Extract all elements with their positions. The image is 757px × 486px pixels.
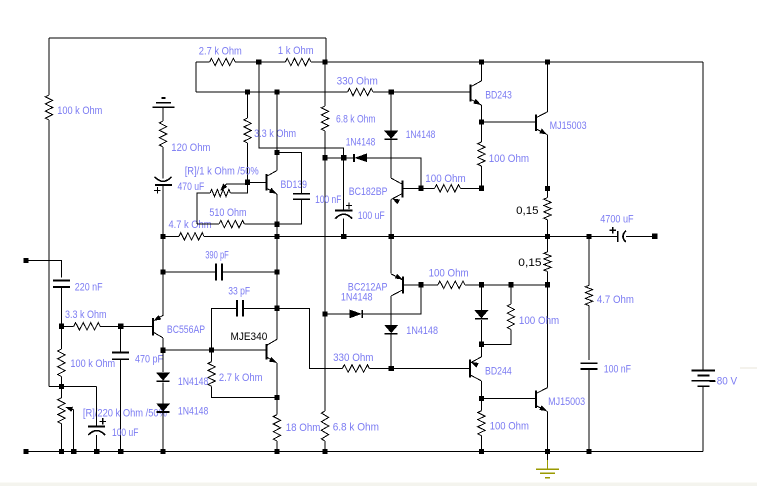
- label 100 k Ohm: [57, 105, 102, 117]
- resistor 100 Ohm (BD244 collector): [478, 411, 485, 436]
- junction: [479, 342, 484, 347]
- wire: [324, 441, 326, 452]
- wire: [196, 61, 210, 63]
- resistor 100 k Ohm (input lower): [58, 349, 65, 377]
- transistor BC556AP collector: [153, 332, 163, 338]
- junction: [545, 59, 550, 64]
- wire: [481, 398, 536, 400]
- capacitor 4700 uF plus: [610, 227, 616, 233]
- wire: [481, 329, 511, 344]
- wire: [276, 398, 278, 415]
- label 100 Ohm: [429, 268, 469, 280]
- transistor MJE340 emitter: [267, 357, 277, 363]
- wire: [163, 235, 179, 237]
- junction: [545, 234, 550, 239]
- junction: [161, 449, 166, 454]
- junction: [274, 270, 279, 275]
- transistor BD244 emitter: [470, 357, 481, 363]
- wire: [60, 424, 62, 452]
- label BC182BP: [349, 186, 388, 198]
- label 1N4148: [406, 129, 436, 141]
- transistor MJ15003 (2) collector: [536, 388, 548, 394]
- svg-text:[R]/1 k Ohm /50%: [R]/1 k Ohm /50%: [185, 166, 260, 178]
- wire: [100, 325, 153, 327]
- junction: [389, 234, 394, 239]
- svg-text:33 pF: 33 pF: [228, 285, 250, 297]
- svg-text:BD244: BD244: [485, 365, 512, 377]
- label BD244: [485, 365, 512, 377]
- svg-text:100 k Ohm: 100 k Ohm: [57, 105, 102, 117]
- label 510 Ohm: [209, 207, 246, 219]
- wire: [60, 386, 62, 397]
- capacitor 470 uF (plate): [155, 184, 172, 186]
- transistor BC212AP emitter arrow: [395, 274, 402, 279]
- ground (output, olive): [536, 460, 559, 478]
- label 100 nF: [315, 194, 342, 206]
- junction: [479, 186, 484, 191]
- wire: [277, 200, 302, 224]
- wire: [390, 334, 392, 368]
- junction: [59, 324, 64, 329]
- wire: [311, 61, 703, 63]
- resistor 330 Ohm (lower): [342, 365, 369, 372]
- svg-text:0,15: 0,15: [516, 205, 538, 217]
- svg-text:1N4148: 1N4148: [346, 137, 376, 149]
- svg-text:100 Ohm: 100 Ohm: [490, 420, 529, 432]
- label [R]/1 k Ohm /50%: [185, 166, 260, 178]
- capacitor 100 nF (Zobel): [581, 363, 598, 369]
- wire: [402, 187, 421, 189]
- wire: [421, 284, 438, 286]
- wire: [390, 199, 392, 236]
- diode 1N4148 (bias 1): [157, 373, 170, 381]
- resistor 100 Ohm (BC212AP base): [438, 281, 465, 288]
- label 100 uF: [112, 427, 139, 439]
- terminal output: [652, 234, 657, 239]
- battery 80 V tick: [710, 380, 716, 382]
- junction: [245, 180, 250, 185]
- junction: [274, 150, 279, 155]
- svg-text:3.3 k Ohm: 3.3 k Ohm: [65, 309, 107, 321]
- svg-text:100 uF: 100 uF: [112, 427, 139, 439]
- battery 80 V plate long top: [692, 369, 716, 371]
- label 33 pF: [228, 285, 250, 297]
- resistor 3.3 k Ohm (Vbe mult): [244, 118, 251, 143]
- resistor 100k (input bias upper): [45, 95, 52, 120]
- junction: [322, 311, 327, 316]
- wire: [204, 235, 618, 237]
- wire: [362, 285, 421, 314]
- resistor 4.7 Ohm (Zobel): [585, 285, 592, 305]
- junction: [118, 324, 123, 329]
- resistor 100 Ohm (BD243 emitter): [478, 142, 485, 166]
- wire: [480, 320, 482, 344]
- wire: [547, 272, 549, 285]
- label MJ15003: [550, 120, 587, 132]
- svg-text:MJ15003: MJ15003: [548, 396, 585, 408]
- junction: [71, 449, 76, 454]
- svg-text:1N4148: 1N4148: [341, 292, 373, 304]
- label 3.3 k Ohm: [65, 309, 107, 321]
- wire: [48, 120, 50, 386]
- junction: [479, 449, 484, 454]
- diode 1N4148 (to BC182BP base): [354, 154, 367, 162]
- capacitor 100 uF (2) plus: [100, 418, 106, 424]
- wire: [212, 308, 238, 350]
- transistor MJ15003 emitter: [536, 129, 548, 135]
- svg-text:1N4148: 1N4148: [178, 376, 208, 388]
- svg-text:BC182BP: BC182BP: [349, 186, 388, 198]
- svg-text:330 Ohm: 330 Ohm: [333, 352, 374, 364]
- transistor BC556AP bar: [152, 318, 154, 335]
- label [R]/220 k Ohm /50%: [83, 407, 168, 419]
- svg-text:4700 uF: 4700 uF: [600, 214, 634, 226]
- label 220 nF: [75, 282, 103, 294]
- capacitor 100 uF (curved plate): [335, 214, 352, 219]
- wire: [343, 219, 345, 237]
- svg-text:100 Ohm: 100 Ohm: [489, 153, 530, 165]
- transistor BD139 collector: [266, 171, 277, 177]
- label 2.7 k Ohm: [219, 372, 263, 384]
- junction: [322, 449, 327, 454]
- resistor 4.7 k Ohm (feedback): [179, 233, 204, 240]
- transistor BD243 collector: [470, 81, 481, 87]
- capacitor 4700 uF (curved plate): [623, 231, 626, 242]
- capacitor 470 uF plus: [154, 187, 160, 193]
- edge artifact line: [740, 367, 757, 369]
- wire: [325, 38, 327, 62]
- label MJ15003: [548, 396, 585, 408]
- capacitor 100 uF (2) curved plate: [88, 431, 105, 436]
- wire: [96, 435, 98, 452]
- transistor BC182BP emitter arrow: [393, 199, 400, 204]
- capacitor 470 uF (curved plate): [155, 177, 172, 182]
- svg-text:1N4148: 1N4148: [406, 325, 438, 337]
- transistor MJE340 bar: [266, 344, 268, 359]
- wire: [247, 92, 249, 118]
- wire: [162, 236, 164, 315]
- wire: [259, 62, 344, 158]
- svg-text:18 Ohm: 18 Ohm: [286, 422, 321, 434]
- label 390 pF: [205, 250, 229, 262]
- junction: [274, 395, 279, 400]
- terminal ground (input side): [23, 449, 28, 454]
- junction: [479, 59, 484, 64]
- svg-text:MJ15003: MJ15003: [550, 120, 587, 132]
- resistor 0,15 (lower emitter): [544, 252, 551, 272]
- wire: [277, 308, 342, 368]
- wire: [162, 338, 164, 350]
- junction: [419, 186, 424, 191]
- transistor BC212AP collector: [391, 290, 403, 296]
- wire: [588, 369, 590, 451]
- wire: [49, 385, 97, 387]
- wire: [702, 62, 704, 370]
- wire: [547, 62, 549, 112]
- label 1N4148: [178, 406, 208, 418]
- svg-text:MJE340: MJE340: [231, 331, 268, 343]
- transistor BC212AP bar: [402, 276, 404, 293]
- wire: [588, 306, 590, 361]
- diode 1N4148 (to BC182BP collector): [385, 131, 398, 139]
- transistor BD243 emitter: [470, 99, 481, 105]
- wire: [373, 91, 470, 93]
- junction: [59, 384, 64, 389]
- junction: [419, 282, 424, 287]
- wire: [120, 326, 122, 352]
- potentiometer 1k: [210, 189, 230, 196]
- transistor MJ15003 (2) emitter: [536, 406, 548, 412]
- junction: [274, 222, 279, 227]
- svg-text:120 Ohm: 120 Ohm: [171, 142, 210, 154]
- potentiometer 1k wiper: [222, 184, 248, 190]
- wire: [547, 452, 549, 460]
- junction: [508, 282, 513, 287]
- junction: [274, 234, 279, 239]
- wire: [195, 62, 197, 92]
- wire: [480, 62, 482, 81]
- battery 80 V plate short: [698, 374, 710, 376]
- wire: [162, 383, 164, 404]
- junction: [161, 234, 166, 239]
- wire: [481, 121, 536, 123]
- wire: [248, 181, 267, 183]
- label 1N4148: [346, 137, 376, 149]
- label 1 k Ohm: [278, 45, 314, 57]
- junction: [479, 396, 484, 401]
- svg-text:BD139: BD139: [281, 179, 308, 191]
- label 0,15: [518, 257, 541, 269]
- wire: [367, 158, 421, 189]
- label 3.3 k Ohm: [254, 128, 296, 140]
- svg-text:4.7 Ohm: 4.7 Ohm: [597, 294, 634, 306]
- wire: [197, 193, 210, 224]
- resistor 2.7 k Ohm: [210, 58, 236, 65]
- wire: [235, 61, 285, 63]
- transistor MJ15003 bar: [535, 114, 537, 131]
- junction: [245, 89, 250, 94]
- transistor MJE340 emitter arrow: [269, 357, 276, 362]
- label BC212AP: [348, 282, 388, 294]
- potentiometer 220k: [58, 398, 65, 424]
- wire: [48, 38, 50, 95]
- wire: [162, 350, 164, 372]
- transistor BD139 emitter: [266, 188, 277, 194]
- wire: [480, 399, 482, 411]
- wire: [211, 350, 213, 362]
- capacitor 100 uF plus: [346, 202, 352, 208]
- svg-text:2.7 k Ohm: 2.7 k Ohm: [199, 46, 242, 58]
- transistor BC556AP emitter: [153, 315, 163, 321]
- junction: [389, 89, 394, 94]
- svg-text:1N4148: 1N4148: [178, 406, 208, 418]
- label BD139: [281, 179, 308, 191]
- svg-text:80 V: 80 V: [717, 376, 738, 388]
- wire: [465, 284, 548, 286]
- diode 1N4148 (bias 2): [157, 404, 170, 412]
- resistor 18 Ohm: [273, 415, 280, 441]
- wire: [162, 413, 164, 452]
- junction: [545, 282, 550, 287]
- svg-text:390 pF: 390 pF: [205, 250, 229, 262]
- junction: [341, 234, 346, 239]
- svg-text:4.7 k Ohm: 4.7 k Ohm: [169, 219, 212, 231]
- wire: [343, 158, 345, 211]
- wire: [480, 381, 482, 399]
- wire: [96, 386, 98, 426]
- label 18 Ohm: [286, 422, 321, 434]
- wire: [61, 325, 73, 327]
- label 0,15: [516, 205, 538, 217]
- battery 80 V plate long: [692, 380, 716, 382]
- label 100 k Ohm: [70, 358, 115, 370]
- svg-text:470 pF: 470 pF: [135, 353, 163, 365]
- wire: [325, 313, 353, 315]
- potentiometer 220k wiper arrow: [66, 407, 73, 411]
- transistor BD139 bar: [265, 174, 267, 190]
- wire: [547, 189, 549, 198]
- svg-text:100 Ohm: 100 Ohm: [429, 268, 469, 280]
- transistor BD244 bar: [469, 360, 471, 378]
- svg-text:[R]/220 k Ohm /50%: [R]/220 k Ohm /50%: [83, 407, 168, 419]
- junction: [479, 119, 484, 124]
- transistor BC182BP bar: [401, 180, 403, 197]
- label BC556AP: [167, 324, 205, 336]
- junction: [586, 234, 591, 239]
- capacitor 100 uF (2) plate: [88, 425, 105, 427]
- svg-text:100 k Ohm: 100 k Ohm: [70, 358, 115, 370]
- label 330 Ohm: [337, 76, 378, 88]
- label 6.8 k Ohm: [333, 421, 379, 433]
- transistor BC556AP emitter arrow: [154, 315, 161, 320]
- junction: [322, 155, 327, 160]
- wire: [244, 223, 277, 225]
- wire: [230, 182, 247, 193]
- junction: [161, 270, 166, 275]
- wire: [460, 187, 481, 189]
- svg-text:1 k Ohm: 1 k Ohm: [278, 45, 314, 57]
- transistor MJ15003 collector: [536, 112, 548, 118]
- wire: [510, 285, 512, 304]
- label 100 nF: [604, 363, 632, 375]
- wire: [324, 158, 326, 411]
- svg-text:100 Ohm: 100 Ohm: [519, 315, 559, 327]
- label 470 pF: [135, 353, 163, 365]
- junction: [341, 155, 346, 160]
- label 80 V: [717, 376, 738, 388]
- resistor 6.8 k Ohm (lower): [321, 411, 328, 441]
- wire: [29, 451, 704, 453]
- wire: [247, 143, 249, 182]
- junction: [161, 348, 166, 353]
- wire: [480, 344, 482, 357]
- terminal input: [23, 258, 28, 263]
- capacitor 100 uF (plates): [335, 209, 353, 211]
- wire: [702, 386, 704, 451]
- wire: [480, 105, 482, 122]
- potentiometer 1k wiper arrow: [221, 184, 227, 190]
- label 100 Ohm: [489, 153, 530, 165]
- svg-text:BC556AP: BC556AP: [167, 324, 205, 336]
- wire: [276, 153, 278, 171]
- wire: [390, 296, 392, 325]
- svg-text:510 Ohm: 510 Ohm: [209, 207, 246, 219]
- svg-text:100 nF: 100 nF: [315, 194, 342, 206]
- transistor BC212AP emitter: [391, 274, 403, 280]
- wire: [212, 386, 277, 397]
- transistor BD243 emitter arrow: [474, 99, 481, 104]
- junction: [545, 186, 550, 191]
- resistor 100 Ohm (BC182BP base): [435, 185, 461, 192]
- wire: [480, 122, 482, 142]
- label 120 Ohm: [171, 142, 210, 154]
- wire: [243, 307, 277, 309]
- capacitor 390 pF: [216, 264, 222, 281]
- label 4700 uF: [600, 214, 634, 226]
- label 100 uF: [358, 210, 385, 222]
- capacitor 4700 uF (plate): [617, 231, 619, 242]
- label 100 Ohm: [425, 173, 466, 185]
- wire: [325, 157, 354, 159]
- wire: [276, 194, 278, 339]
- junction: [118, 449, 123, 454]
- wire: [222, 271, 277, 273]
- label 1N4148: [406, 325, 438, 337]
- wire: [60, 377, 62, 387]
- wire: [60, 287, 62, 326]
- svg-text:100 uF: 100 uF: [358, 210, 385, 222]
- label MJE340: [231, 331, 268, 343]
- svg-text:6.8 k Ohm: 6.8 k Ohm: [336, 114, 376, 126]
- wire: [276, 92, 278, 153]
- wire: [49, 37, 326, 39]
- resistor 3.3 k Ohm (input): [74, 323, 101, 330]
- edge artifact band: [0, 483, 757, 486]
- junction: [586, 449, 591, 454]
- battery 80 V plate short bottom: [698, 385, 710, 387]
- label 100 Ohm: [490, 420, 529, 432]
- wire: [163, 349, 267, 351]
- wire: [324, 62, 326, 106]
- wire: [369, 368, 470, 370]
- label 6.8 k Ohm: [336, 114, 376, 126]
- label 330 Ohm: [333, 352, 374, 364]
- capacitor 220 nF: [53, 281, 70, 287]
- wire: [162, 185, 164, 236]
- transistor MJE340 collector: [267, 339, 277, 345]
- transistor BC182BP emitter: [391, 194, 402, 200]
- svg-text:1N4148: 1N4148: [406, 129, 436, 141]
- resistor 510 Ohm: [219, 220, 244, 227]
- wire: [626, 235, 655, 237]
- wire: [480, 436, 482, 452]
- svg-text:3.3 k Ohm: 3.3 k Ohm: [254, 128, 296, 140]
- wire: [390, 92, 392, 131]
- svg-text:2.7 k Ohm: 2.7 k Ohm: [219, 372, 263, 384]
- wire: [120, 359, 122, 451]
- resistor 330 Ohm (upper): [348, 88, 373, 95]
- wire: [403, 284, 421, 286]
- wire: [60, 326, 62, 349]
- svg-text:BD243: BD243: [485, 90, 512, 102]
- wire: [196, 91, 348, 93]
- label BD243: [485, 90, 512, 102]
- transistor BD139 emitter arrow: [269, 188, 276, 193]
- svg-text:330 Ohm: 330 Ohm: [337, 76, 378, 88]
- junction: [389, 366, 394, 371]
- diode 1N4148 (to BC212AP base): [350, 310, 363, 318]
- junction: [545, 449, 550, 454]
